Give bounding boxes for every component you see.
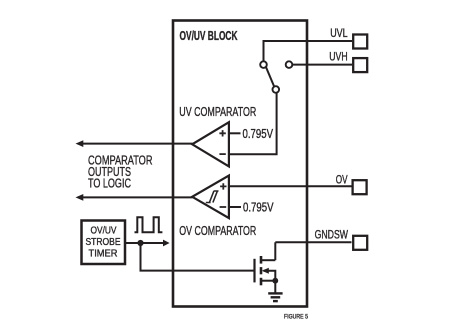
svg-text:0.795V: 0.795V (243, 127, 274, 141)
svg-text:OV COMPARATOR: OV COMPARATOR (179, 223, 256, 238)
svg-text:UVL: UVL (330, 28, 348, 40)
svg-text:UV COMPARATOR: UV COMPARATOR (179, 104, 256, 119)
svg-text:0.795V: 0.795V (243, 201, 274, 215)
svg-text:UVH: UVH (329, 52, 347, 64)
svg-text:TIMER: TIMER (89, 249, 118, 260)
svg-text:OV: OV (336, 175, 348, 187)
svg-text:FIGURE 5: FIGURE 5 (284, 314, 308, 321)
svg-text:TO LOGIC: TO LOGIC (88, 175, 131, 190)
svg-text:OV/UV BLOCK: OV/UV BLOCK (180, 28, 238, 43)
svg-text:STROBE: STROBE (86, 237, 121, 248)
svg-text:GNDSW: GNDSW (315, 230, 348, 242)
svg-text:OV/UV: OV/UV (91, 226, 117, 237)
